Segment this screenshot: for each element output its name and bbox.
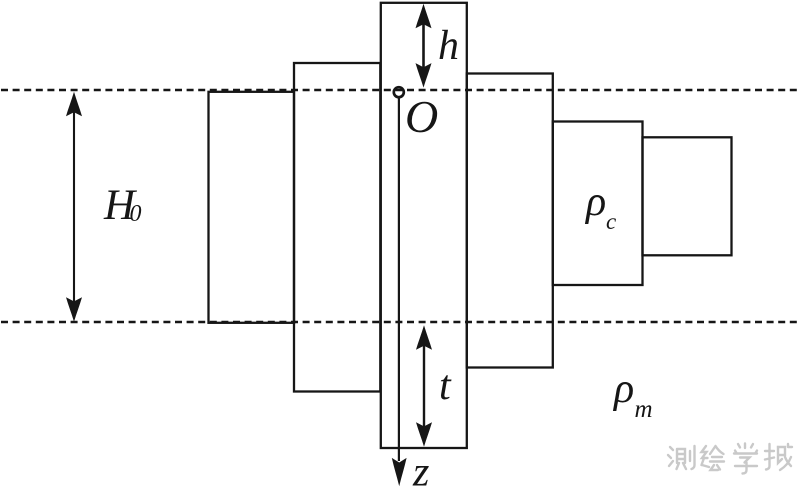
watermark glyph 2 (hui) bbox=[702, 446, 725, 470]
svg-text:h: h bbox=[438, 23, 459, 69]
block 1 (leftmost column) bbox=[209, 92, 295, 323]
watermark glyph 1 (ce) bbox=[668, 446, 695, 469]
svg-text:ρ: ρ bbox=[584, 179, 606, 225]
z axis line (from O downward) bbox=[392, 98, 407, 486]
origin circle O bbox=[394, 87, 404, 97]
svg-text:t: t bbox=[439, 363, 452, 409]
block 4 bbox=[467, 74, 553, 368]
svg-text:ρ: ρ bbox=[612, 366, 634, 412]
dimension arrow H0 (double-headed, left) bbox=[66, 92, 82, 322]
dimension arrow h (double-headed, in central column top) bbox=[416, 4, 432, 88]
dimension arrow t (double-headed, in central column bottom) bbox=[416, 325, 432, 447]
watermark glyph 3 (xue) bbox=[734, 444, 757, 474]
svg-text:0: 0 bbox=[130, 201, 142, 227]
dashed reference line (top, geoid level) bbox=[0, 89, 800, 91]
block 6 (rightmost column) bbox=[643, 137, 732, 255]
block 2 bbox=[294, 63, 380, 392]
watermark glyph 4 (bao) bbox=[765, 444, 792, 470]
block 5 bbox=[553, 122, 643, 286]
svg-text:z: z bbox=[412, 450, 429, 488]
dashed reference line (bottom, compensation level) bbox=[0, 321, 800, 323]
svg-text:O: O bbox=[405, 91, 438, 142]
svg-text:c: c bbox=[606, 209, 616, 234]
svg-text:m: m bbox=[635, 396, 653, 423]
block 3 (central column) bbox=[381, 3, 467, 448]
